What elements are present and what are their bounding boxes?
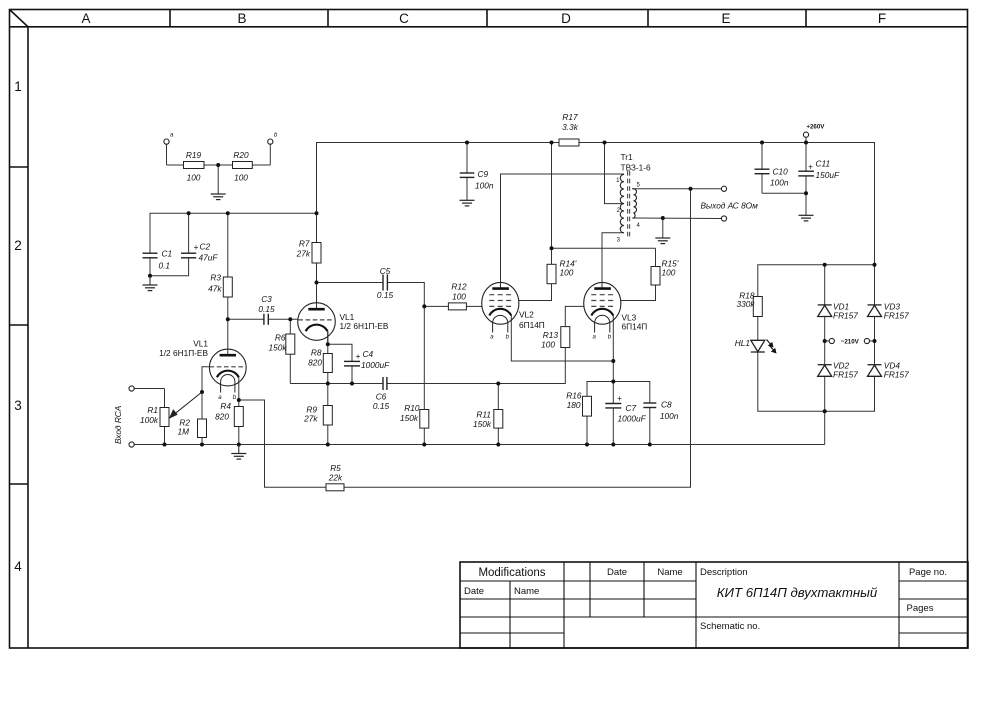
title block verticals	[509, 581, 511, 648]
triode VL1b cathode	[306, 325, 328, 332]
capacitor C6	[383, 377, 387, 390]
wire R14p screen feed	[551, 143, 553, 265]
pentode VL2 grid1	[489, 305, 511, 307]
wire C2 top lead	[188, 213, 190, 253]
svg-text:6П14П: 6П14П	[519, 320, 545, 330]
ground R19R20	[211, 194, 226, 200]
transformer Tr1 core	[627, 171, 629, 237]
svg-text:100n: 100n	[770, 178, 789, 188]
wire R6 leads	[289, 319, 291, 334]
wire R13 to VL3 g1	[565, 306, 584, 326]
svg-text:FR157: FR157	[884, 311, 909, 321]
pentode VL2 grid3	[489, 294, 511, 296]
resistor R14'	[547, 264, 556, 283]
svg-text:R8: R8	[311, 348, 322, 358]
svg-text:Description: Description	[700, 567, 748, 578]
terminal output gnd	[721, 216, 726, 221]
svg-text:HL1: HL1	[735, 338, 750, 348]
terminal +260V	[803, 132, 808, 137]
ground C9	[460, 200, 475, 206]
wire C8 bottom	[649, 408, 651, 445]
capacitor C9	[460, 173, 475, 177]
svg-text:100: 100	[187, 173, 201, 183]
svg-text:C4: C4	[363, 349, 374, 359]
svg-text:150k: 150k	[473, 419, 492, 429]
svg-text:Name: Name	[657, 567, 682, 578]
ground transformer pin4	[655, 238, 670, 244]
triode VL1b anode	[308, 308, 324, 311]
svg-text:+260V: +260V	[806, 124, 825, 131]
resistor R19	[184, 162, 205, 169]
resistor R18	[753, 297, 762, 317]
terminal output hot	[721, 186, 726, 191]
triode VL1a grid	[210, 366, 247, 368]
svg-text:47uF: 47uF	[199, 253, 219, 263]
svg-text:Выход АС 8Ом: Выход АС 8Ом	[701, 201, 759, 211]
pentode VL2 grid2	[489, 300, 511, 302]
triode VL1a envelope	[209, 349, 246, 386]
wire pin4 ground stem	[662, 218, 664, 238]
SCHEMATIC WIRES	[134, 137, 874, 487]
wire R9 leads	[327, 384, 329, 406]
wire R14p bottom to VL2 g2	[519, 284, 552, 301]
pentode VL3 grid1	[591, 305, 613, 307]
triode VL1a anode	[220, 354, 236, 357]
svg-text:R6: R6	[275, 333, 286, 343]
resistor R13	[561, 327, 570, 348]
pentode VL2 cathode	[489, 309, 511, 316]
capacitor C4 polarized	[344, 361, 360, 366]
svg-text:4: 4	[14, 559, 22, 574]
svg-text:1000uF: 1000uF	[618, 414, 647, 424]
pentode VL2 envelope	[482, 282, 519, 324]
resistor R15'	[651, 267, 660, 286]
svg-text:C11: C11	[816, 159, 831, 169]
resistor R6	[286, 334, 295, 354]
svg-text:150k: 150k	[269, 343, 288, 353]
wire bridge top rail	[758, 265, 875, 297]
svg-text:100: 100	[541, 340, 555, 350]
ground R4	[231, 445, 246, 460]
diode VD3	[868, 305, 882, 317]
wire R14p to R15p rail	[552, 247, 656, 249]
svg-text:6П14П: 6П14П	[622, 322, 648, 332]
wire R12 left lead	[424, 305, 448, 307]
border frame row separators	[10, 166, 29, 168]
transformer Tr1 primary winding upper	[620, 171, 636, 237]
resistor R12	[448, 303, 466, 310]
capacitor C11 polarized	[798, 171, 814, 176]
svg-text:100k: 100k	[140, 415, 159, 425]
wire R10 leads	[423, 306, 425, 409]
capacitor C3	[264, 314, 268, 325]
svg-text:R5: R5	[330, 463, 341, 473]
wire secondary pin4 to output	[632, 217, 721, 220]
diode VD4	[868, 365, 882, 377]
svg-text:F: F	[878, 11, 886, 26]
resistor R10	[420, 410, 429, 429]
wire AC right stub	[870, 340, 875, 342]
svg-text:КИТ 6П14П двухтактный: КИТ 6П14П двухтактный	[717, 585, 878, 600]
wire VL3 cathode	[612, 316, 614, 362]
svg-text:Вход RCA: Вход RCA	[113, 405, 123, 444]
svg-text:330k: 330k	[737, 299, 756, 309]
wire ground rail	[134, 444, 825, 446]
svg-text:150uF: 150uF	[816, 170, 840, 180]
border frame column letters	[81, 11, 886, 26]
svg-text:100: 100	[452, 292, 466, 302]
pentode VL3 heater	[595, 315, 610, 323]
resistor R4	[234, 407, 243, 427]
wire R7 branch	[316, 213, 318, 242]
TITLE BLOCK	[460, 562, 968, 648]
terminal input hot	[129, 386, 134, 391]
resistor R20	[233, 162, 253, 169]
capacitor C7 polarized	[605, 404, 621, 408]
svg-text:E: E	[721, 11, 730, 26]
svg-text:A: A	[81, 11, 90, 26]
svg-text:100: 100	[662, 268, 676, 278]
svg-text:R4: R4	[220, 401, 231, 411]
resistor R16	[583, 396, 592, 416]
svg-text:C2: C2	[200, 242, 211, 252]
svg-text:VL1: VL1	[193, 339, 208, 349]
terminal input gnd	[129, 442, 134, 447]
pentode VL3 anode	[594, 287, 611, 290]
wire C11 bottom to ground	[805, 176, 807, 215]
capacitor C5	[383, 275, 387, 291]
svg-text:820: 820	[215, 412, 229, 422]
svg-text:VL2: VL2	[519, 310, 534, 320]
wire C10 leads	[761, 143, 763, 170]
resistor R17	[559, 139, 579, 146]
wire secondary pin5 to output	[632, 188, 721, 190]
wire transformer pin2 feed	[605, 143, 624, 204]
svg-text:100: 100	[560, 268, 574, 278]
wire feedback cathode to R5	[239, 400, 326, 487]
LED HL1 emission arrows	[767, 340, 776, 353]
ground C11	[799, 215, 814, 221]
wire R20 terminal b lead	[252, 164, 270, 166]
diode VD1	[818, 305, 832, 317]
terminal b R20	[268, 139, 273, 144]
pentode VL2 heater	[493, 315, 508, 323]
svg-text:C3: C3	[261, 294, 272, 304]
svg-text:3: 3	[14, 398, 22, 413]
svg-text:R3: R3	[210, 273, 221, 283]
wire C2 bottom to ground node	[150, 258, 189, 276]
svg-text:R12: R12	[451, 282, 467, 292]
resistor R2	[198, 419, 207, 438]
svg-text:R16: R16	[566, 391, 582, 401]
triode VL1b grid	[298, 319, 335, 321]
svg-text:R7: R7	[299, 239, 310, 249]
terminal AC left	[829, 338, 834, 343]
svg-text:B: B	[237, 11, 246, 26]
capacitor C2 polarized	[181, 253, 196, 258]
svg-text:FR157: FR157	[833, 370, 858, 380]
border frame corner diagonal	[10, 10, 29, 27]
svg-text:0.15: 0.15	[377, 290, 394, 300]
COMPONENT BODIES	[160, 139, 762, 491]
svg-text:R19: R19	[186, 150, 202, 160]
wire left supply rail y=213	[150, 213, 317, 253]
svg-text:R17: R17	[562, 112, 578, 122]
wire VL2 g1 from R12	[466, 305, 482, 307]
wire cathode network rail	[587, 382, 650, 404]
wire R19R20 ground stem	[217, 165, 219, 194]
wire C4 bottom	[351, 366, 353, 384]
wire C11 top lead	[805, 143, 807, 172]
svg-text:~210V: ~210V	[841, 339, 860, 346]
svg-text:+: +	[356, 351, 361, 361]
wire B+ top rail right of R17	[579, 143, 875, 265]
svg-text:C7: C7	[626, 403, 637, 413]
wire C1 bottom to ground node	[149, 258, 151, 276]
svg-text:C8: C8	[661, 400, 672, 410]
svg-text:820: 820	[308, 358, 322, 368]
svg-text:2: 2	[14, 238, 22, 253]
wire VL2 anode to pin1	[501, 174, 624, 289]
wire VD1 leads	[824, 265, 826, 306]
transformer Tr1 secondary winding	[634, 189, 637, 218]
wire C9 leads	[466, 143, 468, 174]
resistor R7	[312, 243, 321, 264]
capacitor C1	[143, 253, 158, 258]
wire B+ top rail left of R17	[317, 143, 560, 214]
wire input hot to R1	[134, 388, 164, 390]
pentode VL3 grid2	[591, 300, 613, 302]
svg-text:C6: C6	[376, 392, 387, 402]
wire R4 leads	[238, 400, 240, 407]
wire AC left stub	[825, 340, 830, 342]
svg-text:FR157: FR157	[884, 370, 909, 380]
diode VD2	[818, 365, 832, 377]
triode VL1a cathode	[217, 371, 239, 378]
svg-text:1: 1	[14, 79, 22, 94]
svg-text:27k: 27k	[296, 249, 311, 259]
wire R2 leads	[201, 392, 203, 419]
capacitor C8	[643, 403, 656, 408]
svg-text:Page no.: Page no.	[909, 567, 947, 578]
wire bridge bottom rail	[758, 352, 875, 411]
ground C1C2	[143, 276, 158, 291]
svg-text:1M: 1M	[177, 427, 189, 437]
svg-text:C1: C1	[162, 249, 173, 259]
svg-text:100: 100	[234, 173, 248, 183]
capacitor C10	[755, 169, 770, 174]
wire VD3 leads	[874, 265, 876, 306]
svg-text:ТВЗ-1-6: ТВЗ-1-6	[621, 163, 651, 173]
wire R19 R20 center	[204, 164, 233, 166]
wire common cathode down to C7	[612, 361, 614, 404]
svg-text:47k: 47k	[208, 284, 222, 294]
wire R16 bottom	[586, 416, 588, 444]
resistor R3	[223, 277, 232, 297]
title block horizontals	[460, 580, 696, 582]
svg-text:C10: C10	[773, 167, 789, 177]
wire R19 terminal a lead	[166, 144, 168, 165]
pentode VL3 grid3	[591, 294, 613, 296]
svg-text:100n: 100n	[660, 411, 679, 421]
pentode VL3 envelope	[584, 282, 621, 324]
svg-text:Name: Name	[514, 586, 539, 597]
wire VL1a cathode lead	[238, 377, 240, 400]
svg-text:R11: R11	[476, 410, 491, 420]
border frame top band line	[10, 26, 968, 28]
wire R3 branch anode VL1a	[227, 213, 229, 277]
wire +260V terminal stub	[805, 137, 807, 142]
resistor R9	[323, 406, 332, 426]
svg-text:150k: 150k	[400, 413, 419, 423]
svg-text:R20: R20	[233, 150, 249, 160]
potentiometer R1 wiper arrow	[170, 392, 202, 418]
wire R5 to output node	[344, 189, 691, 488]
svg-text:+: +	[194, 242, 199, 252]
wire C3 row grid VL1b	[228, 318, 264, 320]
wire pin3 to VL3 anode	[602, 233, 624, 289]
resistor R1	[160, 408, 169, 427]
wire VL2 cathode	[511, 316, 613, 362]
wire R8 bottom	[327, 373, 329, 384]
transformer Tr1 primary winding lower	[620, 204, 624, 233]
wire VL1a grid to node	[202, 367, 210, 392]
wire bridge negative to ground rail	[824, 411, 826, 444]
svg-text:1/2 6Н1П-ЕВ: 1/2 6Н1П-ЕВ	[340, 321, 389, 331]
svg-text:22k: 22k	[328, 473, 343, 483]
resistor R11	[494, 410, 503, 429]
svg-text:1/2 6Н1П-ЕВ: 1/2 6Н1П-ЕВ	[159, 348, 208, 358]
wire node-X rail left of C6	[290, 383, 383, 385]
svg-text:Modifications: Modifications	[478, 567, 545, 579]
svg-text:Schematic no.: Schematic no.	[700, 621, 760, 632]
wire VL3 grid rail right of C6	[387, 348, 565, 384]
LED HL1	[751, 340, 765, 352]
wire C10 to C11 bottom	[762, 192, 806, 194]
triode VL1a heater	[221, 374, 235, 381]
pentode VL2 anode	[492, 287, 509, 290]
svg-text:+: +	[617, 393, 622, 403]
border frame row numbers	[14, 79, 22, 574]
wire C5 to R12 node	[387, 283, 424, 307]
wire VL1b anode to C5	[317, 282, 384, 284]
title block outer rect	[460, 562, 968, 648]
svg-text:0.15: 0.15	[373, 401, 390, 411]
svg-text:R1: R1	[147, 405, 158, 415]
wire VD2 bottom lead	[824, 376, 826, 411]
svg-text:0.15: 0.15	[258, 304, 275, 314]
pentode VL3 cathode	[591, 309, 613, 316]
svg-text:180: 180	[567, 400, 581, 410]
terminal a R19	[164, 139, 169, 144]
svg-text:Date: Date	[607, 567, 627, 578]
svg-text:Tr1: Tr1	[621, 152, 634, 162]
wire R18 to HL1	[757, 317, 759, 341]
svg-text:C5: C5	[380, 266, 391, 276]
svg-text:C: C	[399, 11, 409, 26]
svg-text:27k: 27k	[303, 414, 318, 424]
svg-text:R13: R13	[543, 330, 559, 340]
wire C7 bottom	[612, 408, 614, 445]
svg-text:C9: C9	[478, 169, 489, 179]
svg-text:D: D	[561, 11, 571, 26]
wire R15p leads	[655, 248, 657, 266]
svg-text:Pages: Pages	[907, 603, 934, 614]
wire VL1b cathode node to C4	[327, 331, 329, 353]
svg-text:0.1: 0.1	[159, 261, 171, 271]
svg-text:3.3k: 3.3k	[562, 122, 579, 132]
triode VL1b envelope	[298, 303, 336, 341]
wire R11 leads	[497, 384, 499, 410]
svg-text:1000uF: 1000uF	[361, 360, 390, 370]
svg-text:FR157: FR157	[833, 311, 858, 321]
border frame column separators	[169, 10, 171, 27]
wire R1 leads	[164, 389, 166, 408]
svg-text:R10: R10	[404, 403, 420, 413]
svg-text:100n: 100n	[475, 181, 494, 191]
terminal AC right	[864, 338, 869, 343]
svg-text:Date: Date	[464, 586, 484, 597]
resistor R5	[326, 484, 344, 491]
resistor R8	[323, 354, 332, 373]
svg-text:+: +	[808, 162, 813, 172]
border frame left band line	[27, 27, 29, 648]
